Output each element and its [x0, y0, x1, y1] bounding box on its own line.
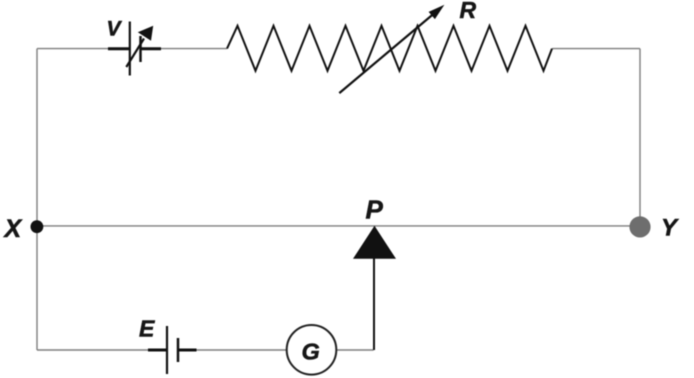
svg-text:X: X: [3, 215, 23, 243]
svg-text:E: E: [139, 315, 155, 341]
svg-text:R: R: [460, 0, 477, 23]
svg-text:G: G: [302, 339, 320, 365]
svg-text:Y: Y: [661, 215, 679, 242]
svg-text:P: P: [366, 195, 384, 225]
svg-text:V: V: [107, 18, 123, 41]
